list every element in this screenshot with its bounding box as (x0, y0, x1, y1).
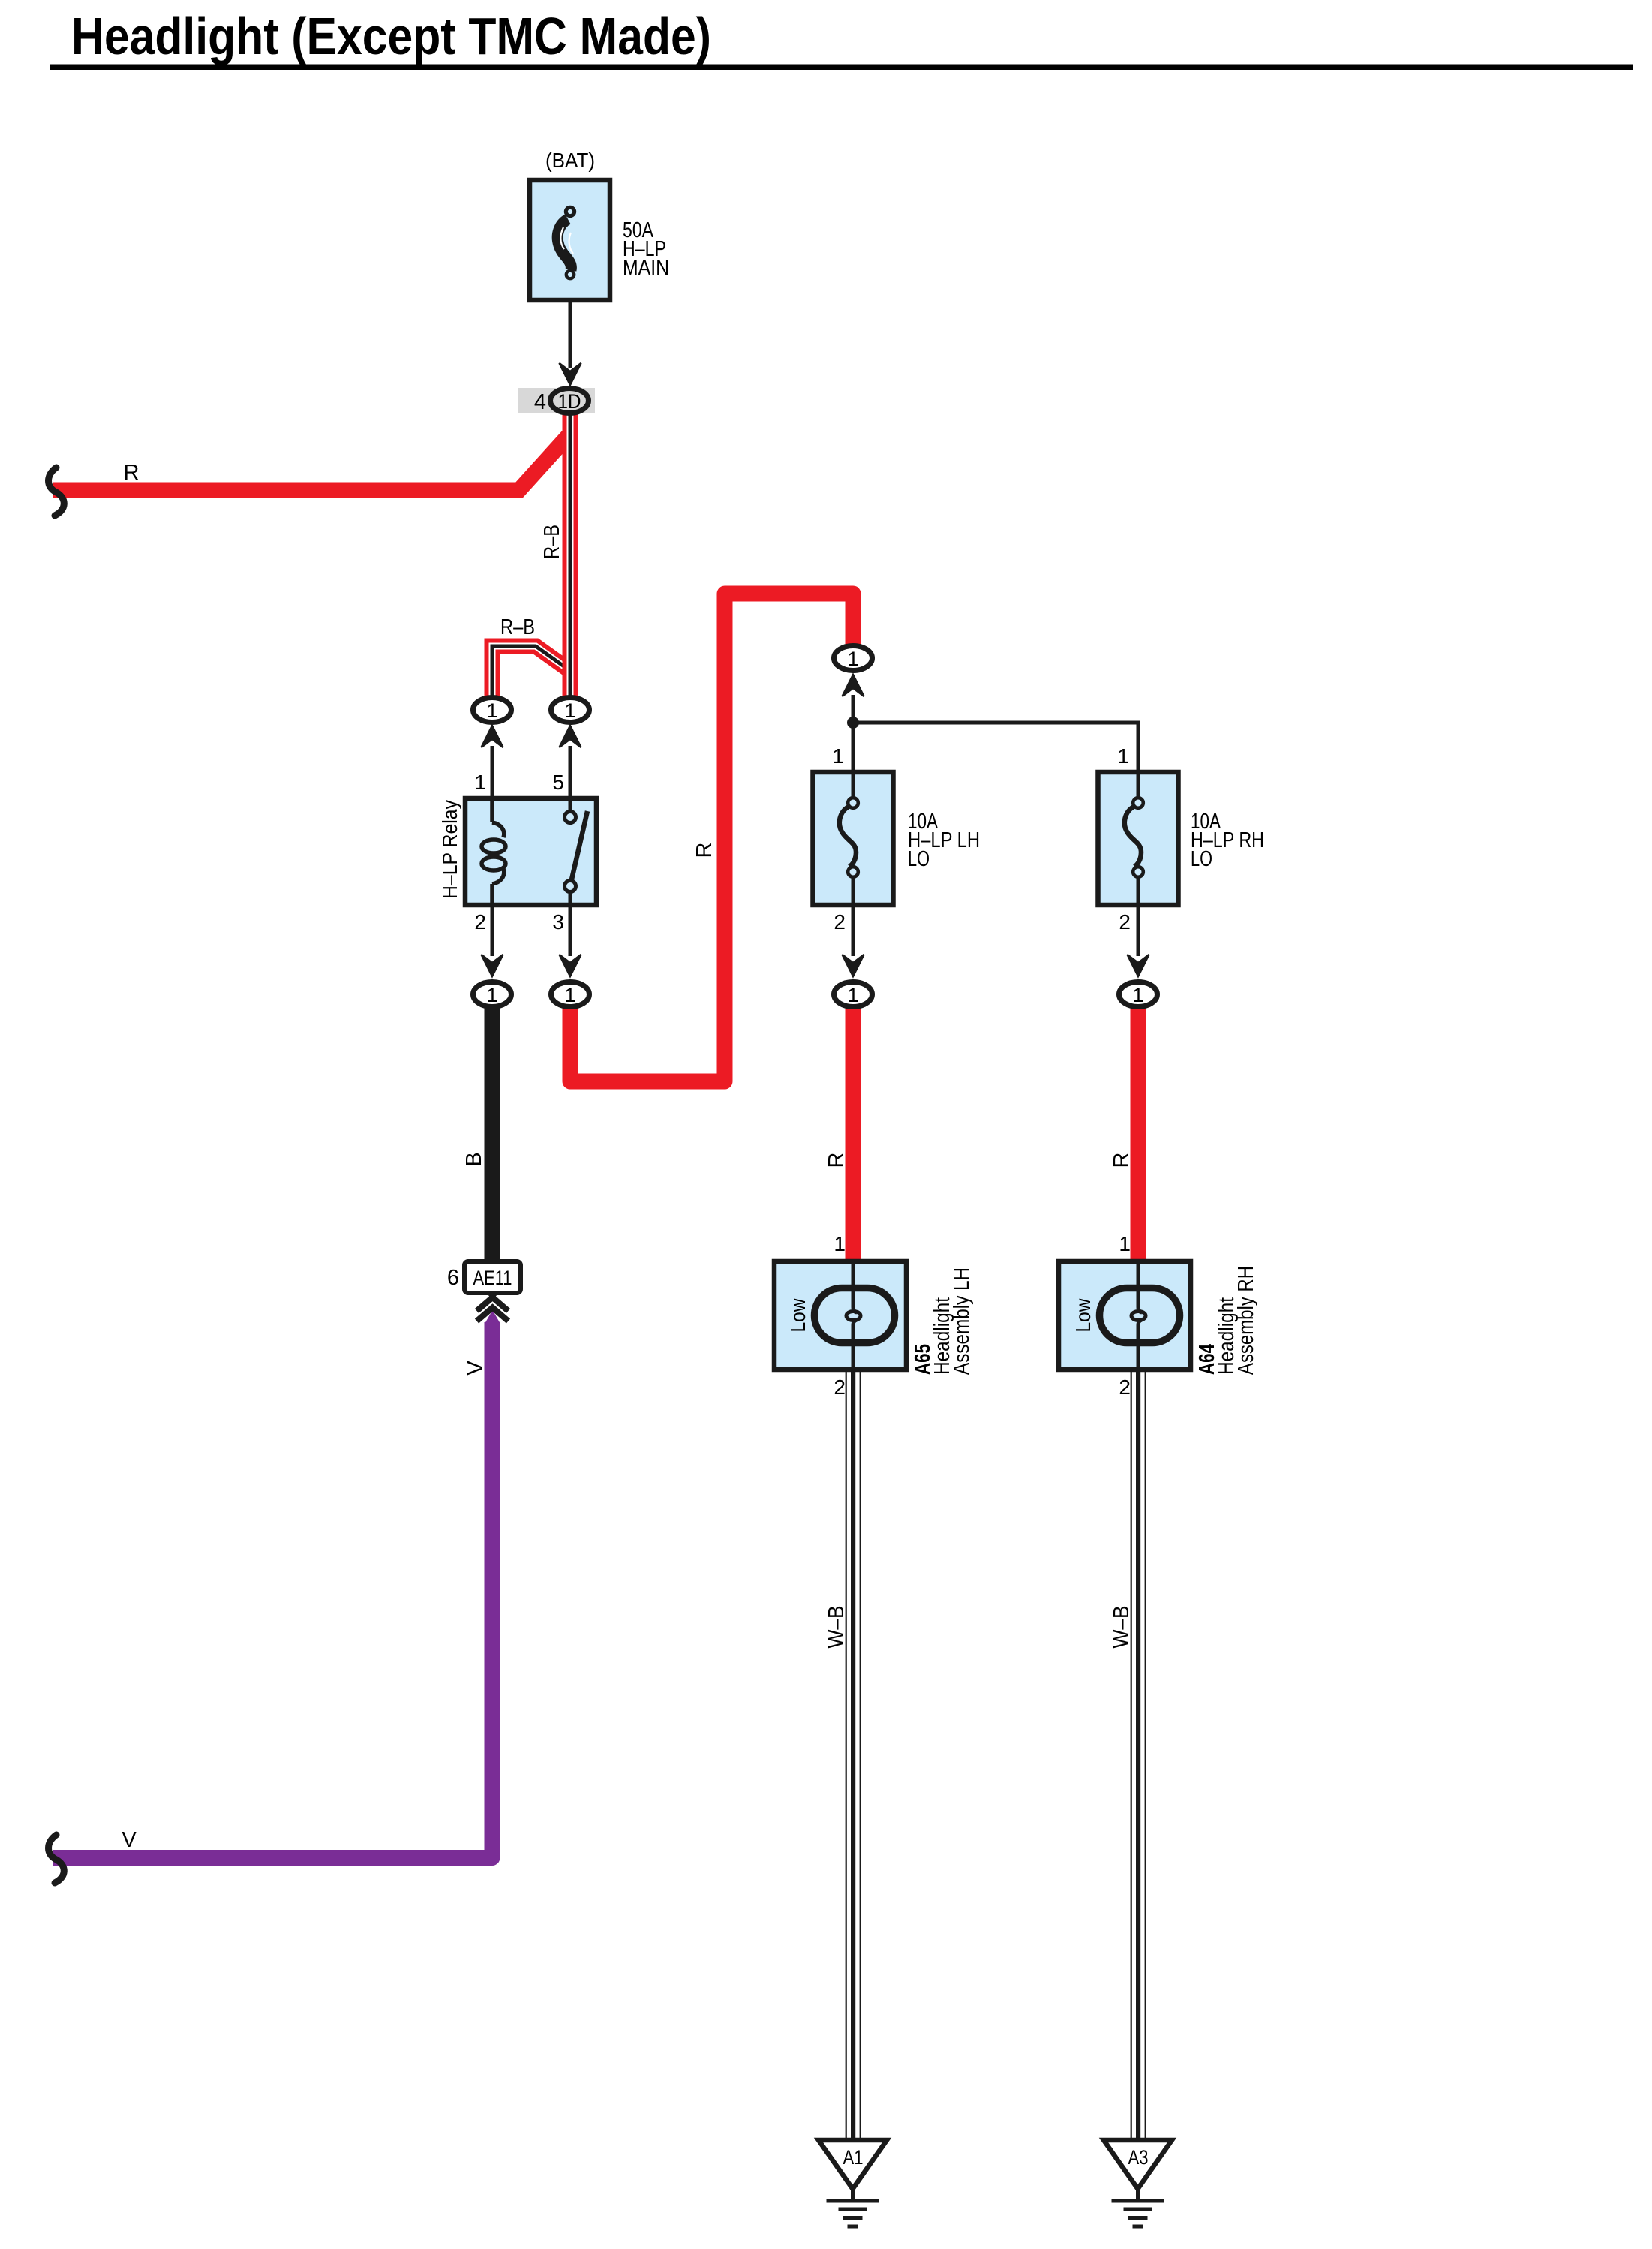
svg-text:R–B: R–B (540, 525, 564, 559)
svg-text:H–LP Relay: H–LP Relay (438, 800, 461, 899)
svg-text:Low: Low (1071, 1298, 1095, 1333)
svg-text:AE11: AE11 (473, 1267, 512, 1289)
svg-text:2: 2 (1119, 1376, 1131, 1399)
wire W-B from headlight LH to ground A1 (846, 1370, 861, 2139)
bulb LH (815, 1261, 895, 1370)
connector oval 1 (below relay pin3) (551, 982, 590, 1007)
svg-text:V: V (122, 1828, 137, 1852)
wire R horizontal from left edge to R-B junction (53, 435, 569, 490)
svg-text:1: 1 (847, 648, 858, 670)
AE11 lower notch (487, 1293, 499, 1300)
arrow down pin2 (482, 955, 503, 976)
title underline (50, 65, 1633, 71)
fusible link element (50A) (557, 206, 576, 281)
svg-text:Assembly LH: Assembly LH (950, 1267, 974, 1375)
svg-text:R: R (824, 1153, 849, 1168)
headlight assembly RH box (1059, 1261, 1191, 1370)
svg-text:1: 1 (564, 699, 575, 722)
svg-text:6: 6 (447, 1266, 459, 1290)
wire down to fuse RH (1137, 721, 1140, 773)
svg-text:4: 4 (534, 390, 546, 414)
svg-text:(BAT): (BAT) (545, 149, 595, 172)
wire R from fuse H-LP RH LO to headlight RH (1131, 1006, 1146, 1263)
svg-text:2: 2 (834, 910, 846, 934)
wire relay pin5 (569, 746, 572, 798)
continuation squiggle left of wire R (49, 468, 65, 516)
AE11 chevron 2 (477, 1308, 509, 1321)
connector oval 1 (top of fuse column) (834, 646, 873, 697)
svg-text:Headlight (Except TMC Made): Headlight (Except TMC Made) (71, 7, 711, 65)
ground A1 (818, 2140, 887, 2229)
svg-text:W–B: W–B (824, 1606, 849, 1649)
svg-text:1D: 1D (558, 390, 581, 413)
fuse 50A H-LP MAIN box (530, 180, 610, 300)
ground A3 (1104, 2140, 1172, 2229)
wire from battery fuse down to connector 1D (569, 299, 572, 368)
svg-text:A1: A1 (843, 2146, 864, 2169)
wire R from fuse H-LP LH LO to headlight LH (846, 1006, 861, 1263)
wire V arrowhead below AE11 (485, 1310, 500, 1324)
svg-text:R: R (1110, 1153, 1134, 1168)
bulb RH (1100, 1261, 1180, 1370)
svg-text:R: R (692, 843, 716, 858)
svg-text:A3: A3 (1128, 2146, 1149, 2169)
connector oval 1 (below relay pin2) (473, 982, 512, 1007)
svg-text:LO: LO (908, 847, 930, 871)
fuse 10A H-LP RH LO box (1098, 772, 1179, 905)
wire R from relay pin 3 to headlight fuses (570, 594, 853, 1081)
svg-text:W–B: W–B (1110, 1606, 1134, 1649)
connector AE11 (464, 1261, 521, 1293)
wire relay pin2 down (491, 905, 494, 956)
svg-text:1: 1 (1117, 744, 1129, 768)
svg-text:Low: Low (786, 1298, 809, 1333)
svg-text:5: 5 (552, 771, 564, 794)
connector oval 1 (below fuse RH) (1119, 982, 1158, 1007)
wire relay pin3 down (569, 905, 572, 956)
svg-text:R: R (124, 461, 140, 485)
connector 4 (1D) grey band (518, 388, 595, 413)
svg-text:2: 2 (834, 1376, 846, 1399)
wire junction down to fuse LH (852, 723, 855, 772)
arrow into connector 1D (560, 363, 581, 385)
wire R-B branch to relay pin 1 (492, 646, 567, 697)
wire W-B from headlight RH to ground A3 (1131, 1370, 1146, 2139)
junction node (847, 717, 859, 729)
wire junction to right fuse column (853, 721, 1138, 725)
arrow down (fuse RH) (1128, 955, 1149, 976)
wire from arrow down to junction (852, 695, 855, 725)
connector oval 1D (551, 389, 589, 413)
svg-text:1: 1 (1119, 1232, 1131, 1255)
wire B from relay pin 2 to connector AE11 (485, 1006, 500, 1264)
relay coil (482, 798, 506, 905)
relay switch (565, 798, 588, 905)
svg-text:2: 2 (474, 910, 486, 934)
svg-text:1: 1 (486, 699, 497, 722)
wire fuse LH down (852, 905, 855, 956)
svg-text:R–B: R–B (500, 615, 535, 639)
svg-text:Assembly RH: Assembly RH (1234, 1266, 1258, 1375)
wire relay pin1 (491, 746, 494, 798)
headlight assembly LH box (774, 1261, 906, 1370)
svg-text:2: 2 (1119, 910, 1131, 934)
wire fuse RH down (1137, 905, 1140, 956)
connector oval 1 (relay pin1 side) (473, 698, 512, 748)
svg-text:1: 1 (486, 984, 497, 1006)
fuse 10A H-LP LH LO box (813, 772, 894, 905)
svg-text:1: 1 (834, 1232, 846, 1255)
continuation squiggle left of wire V (49, 1835, 65, 1883)
svg-text:B: B (462, 1152, 486, 1166)
AE11 chevron 1 (477, 1297, 509, 1311)
fuse element (10A RH) (1125, 772, 1143, 905)
connector oval 1 (below fuse LH) (834, 982, 873, 1007)
svg-text:3: 3 (552, 910, 564, 934)
arrow down (fuse LH) (843, 955, 864, 976)
svg-text:V: V (464, 1361, 488, 1376)
svg-text:1: 1 (1132, 984, 1143, 1006)
svg-text:1: 1 (847, 984, 858, 1006)
relay H-LP Relay box (465, 798, 596, 905)
svg-text:1: 1 (474, 771, 486, 794)
connector oval 1 (relay pin5 side) (551, 698, 590, 748)
svg-text:MAIN: MAIN (623, 256, 669, 280)
fuse element (10A LH) (840, 772, 858, 905)
wire V from connector AE11 to left edge (53, 1322, 492, 1858)
wire R-B vertical from connector 1D to relay pin 5 (563, 413, 578, 697)
arrow down pin3 (560, 955, 581, 976)
svg-text:1: 1 (564, 984, 575, 1006)
svg-text:LO: LO (1191, 847, 1212, 871)
svg-text:1: 1 (832, 744, 844, 768)
